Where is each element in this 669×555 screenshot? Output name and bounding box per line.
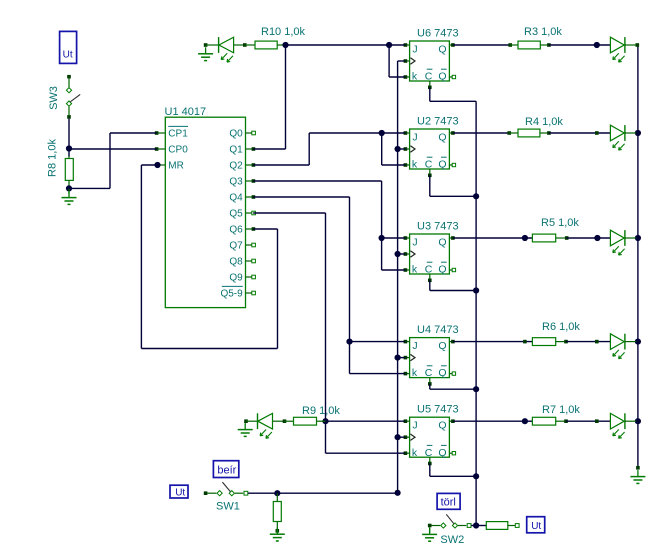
svg-text:SW3: SW3 [48, 86, 60, 110]
svg-text:Q9: Q9 [229, 273, 243, 284]
svg-text:CP1: CP1 [168, 129, 188, 140]
svg-text:C: C [425, 159, 433, 171]
svg-text:J: J [412, 44, 417, 56]
svg-text:k: k [412, 367, 418, 379]
svg-text:törl: törl [441, 497, 456, 509]
svg-text:Q2: Q2 [229, 161, 243, 172]
svg-text:R10 1,0k: R10 1,0k [261, 26, 306, 38]
svg-text:SW2: SW2 [440, 534, 464, 546]
svg-text:SW1: SW1 [216, 500, 240, 512]
svg-text:CP0: CP0 [168, 145, 188, 156]
svg-text:Q: Q [438, 367, 446, 379]
svg-text:Q1: Q1 [229, 145, 243, 156]
svg-text:R9 1,0k: R9 1,0k [302, 405, 340, 417]
svg-text:J: J [412, 420, 417, 432]
svg-text:C: C [425, 71, 433, 83]
svg-text:Q: Q [438, 71, 446, 83]
svg-text:Q7: Q7 [229, 241, 243, 252]
svg-text:J: J [412, 132, 417, 144]
svg-text:Ut: Ut [531, 521, 541, 532]
svg-text:C: C [425, 367, 433, 379]
svg-text:Q6: Q6 [229, 225, 243, 236]
svg-text:Q5-9: Q5-9 [220, 289, 243, 300]
svg-text:Ut: Ut [63, 50, 73, 61]
svg-text:R3 1,0k: R3 1,0k [524, 26, 562, 38]
svg-text:R7 1,0k: R7 1,0k [542, 404, 580, 416]
svg-text:U2 7473: U2 7473 [417, 116, 459, 128]
svg-text:R8 1,0k: R8 1,0k [47, 139, 59, 177]
svg-text:Q4: Q4 [229, 193, 243, 204]
svg-text:C: C [425, 264, 433, 276]
svg-text:Q3: Q3 [229, 177, 243, 188]
svg-text:U4 7473: U4 7473 [417, 324, 459, 336]
svg-text:C: C [425, 447, 433, 459]
svg-text:Ut: Ut [175, 488, 185, 499]
svg-text:R4 1,0k: R4 1,0k [525, 116, 563, 128]
svg-text:Q: Q [438, 447, 446, 459]
svg-text:U3 7473: U3 7473 [417, 221, 459, 233]
svg-text:Q5: Q5 [229, 209, 243, 220]
svg-text:k: k [412, 71, 418, 83]
svg-text:R6 1,0k: R6 1,0k [542, 321, 580, 333]
svg-text:MR: MR [168, 161, 184, 172]
svg-text:Q: Q [438, 159, 446, 171]
svg-text:R5 1,0k: R5 1,0k [541, 217, 579, 229]
svg-text:k: k [412, 159, 418, 171]
svg-text:Q: Q [438, 420, 446, 432]
svg-text:beír: beír [217, 464, 236, 476]
svg-text:Q: Q [438, 44, 446, 56]
svg-text:k: k [412, 447, 418, 459]
svg-text:Q: Q [438, 340, 446, 352]
svg-text:U5 7473: U5 7473 [417, 404, 459, 416]
svg-text:Q8: Q8 [229, 257, 243, 268]
svg-text:J: J [412, 237, 417, 249]
svg-text:U6 7473: U6 7473 [417, 28, 459, 40]
svg-text:k: k [412, 264, 418, 276]
svg-text:U1 4017: U1 4017 [165, 106, 207, 118]
svg-text:Q: Q [438, 132, 446, 144]
svg-text:Q: Q [438, 264, 446, 276]
svg-text:J: J [412, 340, 417, 352]
svg-text:Q0: Q0 [229, 129, 243, 140]
svg-text:Q: Q [438, 237, 446, 249]
